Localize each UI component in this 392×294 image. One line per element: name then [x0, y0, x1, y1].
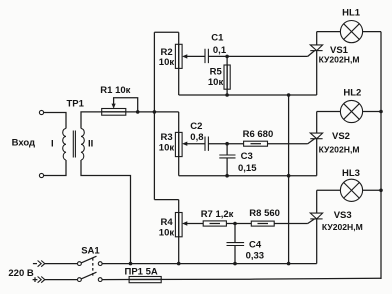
wire lower rail — [102, 278, 381, 279]
node bus ch2 — [287, 174, 291, 178]
capacitor C1 — [205, 49, 208, 63]
svg-text:R4: R4 — [161, 217, 174, 228]
svg-text:10к: 10к — [159, 57, 175, 68]
svg-text:0,1: 0,1 — [213, 45, 227, 56]
resistor R4 leg — [178, 200, 180, 264]
wire channel2 bottom — [179, 175, 317, 177]
resistor R5 — [226, 56, 228, 95]
svg-text:R3: R3 — [161, 132, 173, 143]
svg-text:КУ202Н,М: КУ202Н,М — [322, 222, 363, 232]
svg-text:ТР1: ТР1 — [67, 99, 85, 110]
svg-text:10к: 10к — [159, 228, 175, 239]
transformer TP1 primary winding I — [63, 129, 66, 160]
svg-text:ПР1 5А: ПР1 5А — [125, 266, 158, 277]
svg-text:VS3: VS3 — [334, 210, 352, 221]
svg-text:R2: R2 — [161, 47, 173, 58]
fuse PR1 — [129, 277, 161, 283]
node gate1 — [225, 55, 229, 59]
switch SA1 pole2 — [45, 279, 78, 281]
svg-text:I: I — [51, 139, 54, 150]
capacitor C3 — [226, 144, 228, 155]
lamp HL1 — [317, 31, 341, 33]
wire R7 to R8 — [226, 223, 251, 225]
svg-text:R1 10к: R1 10к — [100, 85, 130, 96]
svg-text:R8 560: R8 560 — [249, 208, 280, 219]
svg-text:0,15: 0,15 — [238, 163, 257, 174]
transformer TP1 core — [73, 131, 75, 158]
svg-text:SA1: SA1 — [81, 246, 100, 257]
resistor R4 wiper arrow — [182, 221, 187, 225]
svg-text:0,8: 0,8 — [190, 132, 203, 143]
resistor R2 leg — [178, 32, 180, 95]
capacitor C2 — [205, 137, 208, 151]
wire left bus — [153, 32, 155, 199]
node left bus junction — [153, 110, 157, 114]
thyristor VS3 — [316, 190, 318, 213]
wire channel1 bottom — [179, 94, 317, 96]
input terminal bottom — [39, 173, 43, 177]
wire input top to primary — [44, 113, 66, 129]
resistor R1 wiper arm — [114, 98, 138, 112]
svg-text:10к: 10к — [208, 77, 224, 88]
wire channel3 top branch — [154, 199, 178, 201]
wire right bus — [380, 32, 382, 279]
resistor R3 leg — [178, 112, 180, 176]
lamp HL2 — [317, 111, 341, 113]
node TP1 secondary on rail — [129, 262, 133, 266]
wire C2 to R6 — [208, 143, 243, 145]
switch SA1 pole1 — [45, 263, 78, 265]
resistor R2 wiper arrow — [182, 54, 187, 58]
node gate2 — [225, 142, 229, 146]
wire R8 to gate VS3 — [274, 223, 308, 225]
capacitor C4 — [234, 224, 236, 243]
input terminal top — [39, 110, 43, 114]
svg-text:HL3: HL3 — [342, 168, 360, 179]
svg-text:C3: C3 — [241, 151, 253, 162]
svg-text:HL2: HL2 — [343, 88, 361, 99]
resistor R8 — [251, 221, 274, 226]
node C4 on rail — [233, 262, 237, 266]
svg-text:HL1: HL1 — [342, 7, 361, 18]
svg-text:II: II — [88, 139, 93, 150]
resistor R1 — [102, 109, 126, 116]
svg-text:0,33: 0,33 — [246, 250, 265, 261]
svg-text:R7 1,2к: R7 1,2к — [201, 209, 234, 220]
wire R2 wiper to C1 — [187, 55, 206, 57]
node R1 wiper junction — [136, 110, 140, 114]
wire channel1 top branch — [154, 31, 178, 33]
transformer TP1 secondary winding II — [81, 129, 84, 160]
node R4 on rail — [177, 262, 181, 266]
svg-text:КУ202Н,М: КУ202Н,М — [319, 144, 360, 154]
node right bus HL2 — [379, 110, 383, 114]
node gate3 — [233, 222, 237, 226]
wire R3 wiper to C2 — [187, 143, 206, 145]
svg-text:C2: C2 — [190, 121, 202, 132]
node bus ch1 — [287, 93, 291, 97]
node C3 bottom — [225, 174, 229, 178]
svg-text:КУ202Н,М: КУ202Н,М — [319, 55, 360, 65]
node R5 bottom — [225, 93, 229, 97]
node bus on rail — [287, 262, 291, 266]
svg-text:Вход: Вход — [12, 138, 35, 149]
resistor R2 — [175, 44, 182, 68]
lamp HL3 — [317, 189, 341, 191]
wire C1 to gate VS1 — [208, 55, 307, 57]
resistor R3 wiper arrow — [182, 142, 187, 146]
switch SA1 link dashed — [92, 258, 94, 277]
svg-text:R6 680: R6 680 — [243, 129, 274, 140]
wire secondary top to R1 and node A — [81, 112, 179, 129]
svg-text:10к: 10к — [159, 143, 175, 154]
resistor R4 — [175, 213, 182, 237]
wire input bottom to primary — [44, 160, 66, 176]
wire cathode bus — [288, 95, 290, 264]
resistor R6 — [244, 141, 268, 146]
svg-text:220 В: 220 В — [8, 268, 33, 279]
wire upper rail — [102, 263, 317, 265]
thyristor VS2 — [316, 112, 318, 134]
connector plus — [33, 277, 38, 282]
svg-text:C1: C1 — [211, 32, 224, 43]
wire R6 to gate VS2 — [268, 143, 308, 145]
wire secondary bottom down to lower rail — [81, 160, 131, 264]
svg-text:C4: C4 — [249, 240, 262, 251]
svg-text:VS2: VS2 — [332, 131, 350, 142]
resistor R3 — [175, 132, 182, 156]
resistor R7 — [203, 221, 226, 226]
connector minus — [33, 263, 37, 265]
thyristor VS1 — [316, 32, 318, 45]
wire R4 wiper to R7 — [187, 223, 204, 225]
node right bus HL3 — [379, 189, 383, 193]
